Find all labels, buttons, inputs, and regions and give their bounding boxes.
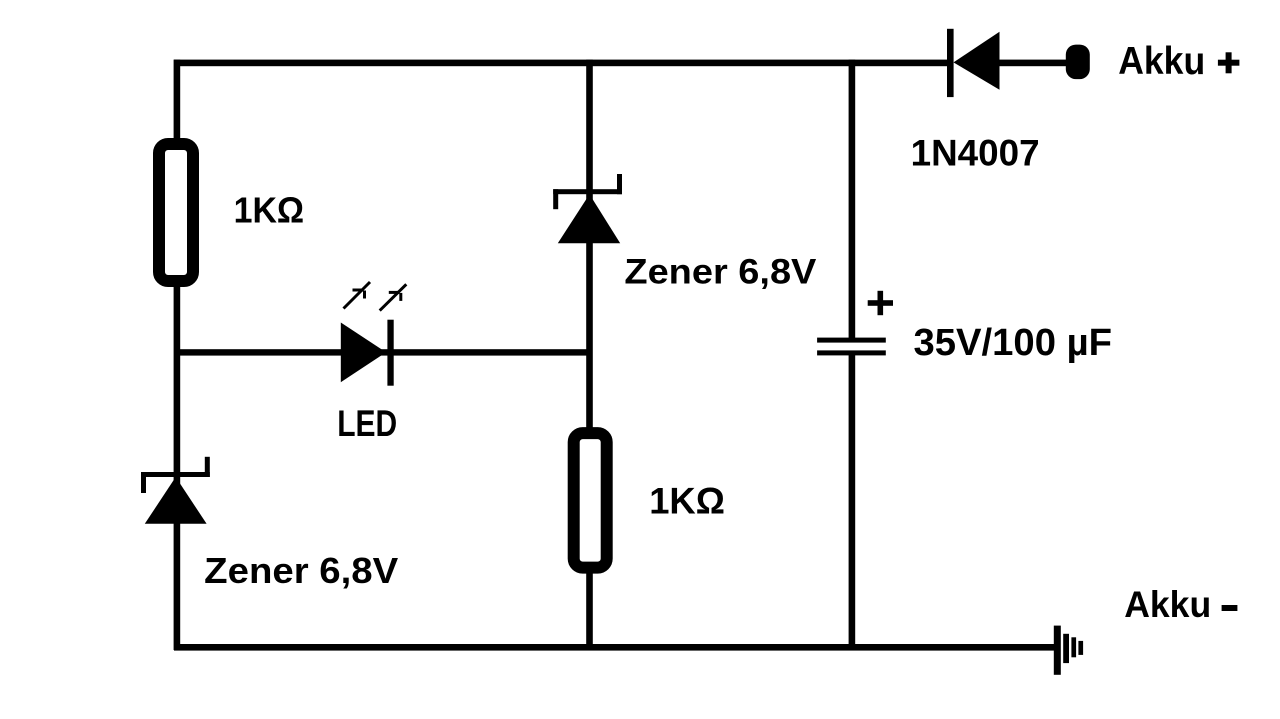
svg-text:LED: LED bbox=[337, 403, 397, 444]
svg-text:Akku: Akku bbox=[1124, 584, 1211, 625]
svg-text:1N4007: 1N4007 bbox=[911, 133, 1040, 174]
svg-text:1KΩ: 1KΩ bbox=[234, 190, 305, 231]
svg-text:35V/100 µF: 35V/100 µF bbox=[914, 322, 1113, 364]
svg-text:1KΩ: 1KΩ bbox=[649, 480, 725, 521]
svg-text:Zener 6,8V: Zener 6,8V bbox=[624, 253, 817, 292]
svg-text:Akku: Akku bbox=[1118, 40, 1205, 83]
svg-text:Zener 6,8V: Zener 6,8V bbox=[204, 550, 398, 591]
